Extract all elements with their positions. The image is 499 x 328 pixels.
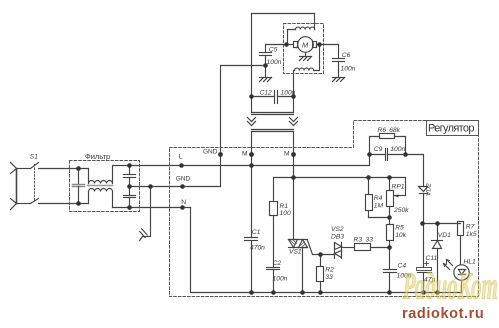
- node C5 ground: [263, 63, 268, 68]
- mains plug pin bottom: [11, 199, 17, 204]
- node C11 top: [420, 221, 425, 226]
- wire N drop inside box: [190, 208, 192, 293]
- resistor R3: [355, 244, 371, 251]
- triac VS1: [289, 239, 308, 241]
- node M left terminal: [249, 152, 254, 157]
- mains plug bar: [16, 169, 18, 204]
- wire left M vertical upper: [251, 14, 253, 113]
- capacitor filter input: [78, 169, 80, 185]
- wire GND rail: [130, 186, 221, 188]
- svg-text:M: M: [284, 151, 290, 158]
- svg-text:C5: C5: [269, 47, 278, 54]
- switch S1 mechanical link dashed: [34, 165, 36, 201]
- capacitor C5: [266, 44, 287, 46]
- node RP1 top: [387, 175, 392, 180]
- svg-text:DB3: DB3: [331, 233, 344, 240]
- C11 plus sign: [425, 263, 429, 265]
- wire switch to choke top-left: [39, 168, 89, 170]
- svg-text:GND: GND: [176, 176, 191, 183]
- wire GND vertical into box: [220, 66, 222, 187]
- switch S1 bottom blade: [31, 199, 39, 204]
- node divider mid: [387, 215, 392, 220]
- svg-text:R1: R1: [280, 203, 289, 210]
- svg-text:N: N: [181, 199, 186, 206]
- node filter cap2 top: [127, 163, 132, 168]
- svg-text:R6: R6: [378, 127, 387, 134]
- wire bottom N rail: [191, 292, 462, 294]
- node GND top terminal: [218, 152, 223, 157]
- capacitor C1: [245, 237, 258, 239]
- svg-text:100n: 100n: [390, 146, 405, 153]
- capacitor C11 electrolytic: [417, 268, 432, 271]
- wire plug to switch top: [17, 168, 31, 170]
- wire triac gate: [308, 241, 335, 255]
- svg-text:radiokot.ru: radiokot.ru: [402, 306, 484, 322]
- node R4 top: [366, 175, 371, 180]
- regulator label box: [427, 121, 479, 136]
- svg-text:L: L: [179, 153, 183, 160]
- node filter mid: [127, 184, 132, 189]
- svg-text:100n: 100n: [281, 89, 296, 96]
- capacitor filter output top: [129, 166, 131, 175]
- resistor R4: [368, 178, 370, 195]
- ground symbol below C5: [265, 66, 267, 78]
- svg-text:GND: GND: [203, 149, 218, 156]
- svg-text:R4: R4: [374, 195, 383, 202]
- ground symbol below C6: [333, 77, 345, 79]
- wire right brush: [317, 44, 320, 46]
- node C4 bottom: [387, 290, 392, 295]
- node N terminal: [180, 205, 185, 210]
- wire top loop horizontal: [252, 13, 315, 15]
- svg-text:S1: S1: [30, 154, 38, 161]
- motor unit dashed box: [284, 24, 324, 74]
- capacitor filter output bottom: [129, 187, 131, 196]
- node VD1 top: [435, 221, 440, 226]
- svg-text:250k: 250k: [393, 207, 409, 214]
- node motor right brush: [317, 42, 322, 47]
- inductor field winding bottom: [295, 68, 314, 70]
- wire C5 node to GND drop: [221, 65, 266, 67]
- node VD1 bottom: [435, 290, 440, 295]
- capacitor C9: [370, 154, 386, 156]
- svg-text:470n: 470n: [250, 245, 265, 252]
- motor M1 circle: [298, 37, 314, 53]
- node C2 bottom: [271, 290, 276, 295]
- node R2 bottom: [318, 290, 323, 295]
- node C9 left: [367, 152, 372, 157]
- svg-text:Регулятор: Регулятор: [428, 122, 475, 134]
- svg-text:R7: R7: [466, 223, 475, 230]
- svg-text:C6: C6: [342, 52, 351, 59]
- regulator dashed box: [170, 121, 479, 297]
- wire diac to R3: [342, 247, 355, 249]
- node filter cap1 top: [76, 166, 81, 171]
- svg-text:VD1: VD1: [438, 232, 451, 239]
- choke core line: [88, 185, 113, 187]
- wire earth drop from filter: [150, 187, 152, 237]
- node triac anode rail: [291, 175, 296, 180]
- watermark РадиоКот: [402, 265, 498, 307]
- wire plug to switch bottom: [17, 203, 31, 205]
- node triac cathode: [300, 290, 305, 295]
- diode VD2: [419, 187, 428, 192]
- LED HL1: [454, 265, 469, 280]
- svg-text:100n: 100n: [267, 59, 282, 66]
- node C11 bottom: [421, 290, 426, 295]
- svg-text:100n: 100n: [273, 276, 288, 283]
- svg-text:100n: 100n: [341, 66, 356, 73]
- node filter cap1 bottom: [76, 201, 81, 206]
- node C9 right: [403, 152, 408, 157]
- svg-text:10k: 10k: [395, 232, 406, 239]
- connector X upper bars: [252, 112, 294, 114]
- capacitor C6: [320, 44, 339, 46]
- earth hook symbol: [143, 236, 151, 238]
- filter dashed box: [70, 161, 140, 212]
- wire L rail: [113, 165, 370, 167]
- svg-text:R3: R3: [354, 236, 363, 243]
- capacitor C2: [267, 267, 280, 269]
- potentiometer RP1: [389, 178, 391, 191]
- node L C1: [249, 163, 254, 168]
- wire right M vertical lower (to M terminal, triac): [293, 132, 295, 240]
- svg-text:Фильтр: Фильтр: [85, 152, 110, 161]
- svg-text:M: M: [302, 40, 309, 49]
- svg-text:C9: C9: [374, 146, 383, 153]
- node GND terminal: [180, 184, 185, 189]
- capacitor C12: [252, 96, 275, 98]
- svg-text:РадиоКот: РадиоКот: [402, 265, 498, 307]
- node motor left brush: [284, 42, 289, 47]
- svg-text:M: M: [242, 151, 248, 158]
- svg-text:R5: R5: [395, 224, 404, 231]
- motor brush left: [294, 42, 298, 48]
- wire C9 node to VD2: [406, 155, 424, 187]
- wire left brush: [287, 44, 294, 46]
- wire switch to choke bottom-left: [39, 203, 89, 205]
- wire L rail up to C9 node: [369, 155, 371, 166]
- svg-text:R2: R2: [325, 266, 334, 273]
- resistor R7: [458, 222, 464, 236]
- wire top loop right drop to field winding: [314, 14, 316, 30]
- node L terminal: [179, 163, 184, 168]
- svg-text:100: 100: [280, 210, 291, 217]
- svg-text:33: 33: [366, 236, 374, 243]
- RP1 wiper: [405, 178, 407, 196]
- inductor field winding top: [296, 27, 315, 29]
- connector X lower bars: [252, 129, 294, 131]
- svg-text:C1: C1: [252, 229, 261, 236]
- inductor choke top winding: [89, 181, 113, 184]
- node gate: [318, 252, 323, 257]
- node M right terminal: [291, 152, 296, 157]
- connector X left pin arrows: [248, 118, 256, 122]
- wire left M vertical lower (to M terminal, L rail, C1): [251, 132, 253, 238]
- wire bottom winding left lead: [294, 70, 295, 72]
- wire bottom winding right lead up to right brush node: [314, 45, 320, 71]
- resistor R1: [273, 178, 275, 202]
- resistor R6: [380, 134, 395, 139]
- svg-text:33: 33: [325, 274, 333, 281]
- svg-text:VD2: VD2: [426, 183, 433, 196]
- chassis ground inside motor box: [305, 53, 307, 57]
- svg-text:C12: C12: [260, 89, 273, 96]
- svg-text:1k5: 1k5: [466, 231, 477, 238]
- rail from triac anode: [274, 177, 406, 179]
- svg-text:VS2: VS2: [331, 226, 344, 233]
- svg-text:C11: C11: [426, 255, 438, 262]
- svg-text:68k: 68k: [389, 127, 400, 134]
- node filter cap2 bottom: [127, 205, 132, 210]
- node C12 left: [249, 94, 254, 99]
- resistor R2: [320, 255, 322, 267]
- wire top winding left lead: [288, 30, 296, 45]
- diode VD1: [437, 224, 439, 241]
- HL1 arrows: [447, 260, 453, 266]
- wire N rail: [113, 207, 191, 209]
- capacitor C4: [389, 248, 391, 270]
- wire rail to indicator: [423, 223, 461, 225]
- resistor R5: [389, 218, 391, 225]
- mains plug pin top: [11, 163, 17, 169]
- svg-text:RP1: RP1: [392, 183, 405, 190]
- node earth tap: [148, 184, 153, 189]
- node R5 bottom: [387, 245, 392, 250]
- node C1 bottom: [249, 290, 254, 295]
- svg-text:VS1: VS1: [289, 249, 302, 256]
- switch S1 top blade: [31, 163, 39, 169]
- connector X right pin arrows: [290, 118, 298, 122]
- motor brush right: [313, 42, 317, 48]
- svg-text:1M: 1M: [374, 202, 384, 209]
- inductor choke bottom winding: [89, 189, 113, 192]
- svg-text:C2: C2: [273, 260, 282, 267]
- diac VS2: [334, 243, 336, 259]
- wire right M vertical upper (from bottom winding): [293, 71, 295, 113]
- node C12 right: [291, 94, 296, 99]
